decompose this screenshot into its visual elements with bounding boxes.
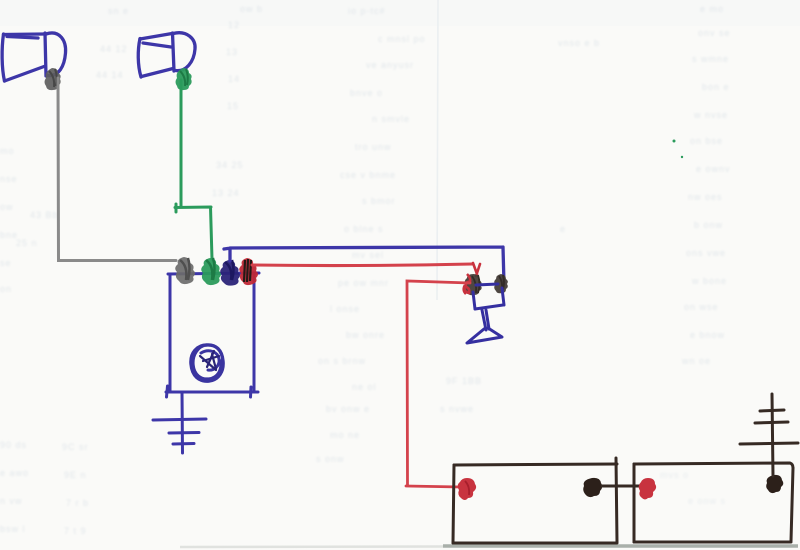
svg-text:on: on	[0, 284, 12, 294]
svg-text:ons vwe: ons vwe	[686, 248, 726, 258]
svg-text:13: 13	[226, 47, 238, 57]
battery B2 positive terminal (red)	[639, 478, 656, 500]
svg-text:se: se	[0, 258, 12, 268]
svg-text:w nvse: w nvse	[693, 110, 728, 120]
svg-text:14: 14	[228, 74, 240, 84]
svg-text:7 r b: 7 r b	[66, 498, 89, 508]
horn H1 terminal	[45, 68, 61, 90]
svg-text:w bone: w bone	[691, 276, 727, 286]
svg-text:13 24: 13 24	[212, 188, 240, 198]
relay K1 terminal 87 (green)	[201, 258, 221, 285]
svg-text:b onw: b onw	[694, 220, 723, 230]
svg-text:s wmne: s wmne	[692, 54, 729, 64]
svg-text:mv sel: mv sel	[352, 250, 384, 260]
svg-text:bv onw e: bv onw e	[326, 404, 370, 414]
wire: horn H1 to relay terminal 86 (gray)	[58, 78, 176, 261]
switch S1 terminal A	[465, 274, 482, 295]
ground (relay K1)	[153, 392, 206, 453]
horn H1	[2, 33, 65, 81]
svg-text:43 Bb: 43 Bb	[30, 210, 59, 220]
svg-text:44 14: 44 14	[96, 70, 124, 80]
svg-text:12: 12	[228, 20, 240, 30]
svg-text:44 12: 44 12	[100, 44, 128, 54]
svg-text:on wse: on wse	[684, 302, 719, 312]
wire: relay terminal 30 to switch S1 (blue)	[224, 247, 504, 284]
battery B1 positive terminal (red)	[458, 478, 476, 500]
svg-text:wn oe: wn oe	[681, 356, 711, 366]
svg-text:7 t 9: 7 t 9	[64, 526, 87, 536]
svg-text:34 25: 34 25	[216, 160, 244, 170]
relay K1 coil	[191, 345, 223, 381]
ground symbol on battery B2 negative terminal	[740, 394, 798, 476]
svg-text:bnve o: bnve o	[350, 88, 383, 98]
svg-text:on bse: on bse	[690, 136, 723, 146]
svg-text:e ownv: e ownv	[696, 164, 731, 174]
svg-text:90 ds: 90 ds	[0, 440, 27, 450]
svg-text:ve anyusr: ve anyusr	[366, 60, 414, 70]
svg-text:e mo: e mo	[700, 4, 724, 14]
battery B2 negative terminal (black)	[766, 475, 783, 493]
svg-text:cse v bnme: cse v bnme	[340, 170, 396, 180]
svg-text:s onw: s onw	[316, 454, 345, 464]
svg-text:ow: ow	[0, 202, 14, 212]
svg-text:nw oes: nw oes	[688, 192, 723, 202]
wire: battery B1 to battery B2 link	[601, 485, 645, 488]
svg-text:9F 1BB: 9F 1BB	[446, 376, 482, 386]
switch S1 horn-button body	[467, 284, 504, 343]
svg-text:e: e	[560, 224, 566, 234]
svg-text:mvs o: mvs o	[660, 470, 689, 480]
relay K1 terminal 30 (blue)	[220, 260, 240, 286]
svg-text:mo: mo	[0, 146, 15, 156]
wire: relay terminal 85 to switch S1 (red)	[252, 264, 472, 266]
svg-text:ow b: ow b	[240, 4, 263, 14]
wire: switch S1 to battery B1 + (red)	[406, 281, 470, 487]
svg-text:on s brnw: on s brnw	[318, 356, 366, 366]
svg-text:nse: nse	[0, 174, 18, 184]
svg-text:o blne s: o blne s	[344, 224, 384, 234]
svg-text:e bnow: e bnow	[690, 330, 725, 340]
svg-text:mo ne: mo ne	[330, 430, 360, 440]
svg-text:io p-tc#: io p-tc#	[348, 6, 386, 16]
switch S1 terminal B	[494, 274, 508, 293]
svg-text:bw onre: bw onre	[346, 330, 385, 340]
battery B2	[634, 463, 793, 542]
svg-text:15: 15	[227, 101, 239, 111]
relay K1 terminal 86 (gray)	[175, 257, 195, 284]
svg-text:e awo: e awo	[0, 468, 29, 478]
svg-text:ne ol: ne ol	[352, 382, 377, 392]
svg-text:n smvle: n smvle	[372, 114, 410, 124]
svg-text:25 n: 25 n	[16, 238, 38, 248]
svg-text:n vw: n vw	[0, 496, 23, 506]
svg-text:sn e: sn e	[108, 6, 129, 16]
svg-text:e onw s: e onw s	[688, 496, 726, 506]
horn H2 terminal	[176, 68, 192, 90]
svg-text:pe ow mnr: pe ow mnr	[338, 278, 389, 288]
svg-text:l onse: l onse	[330, 304, 360, 314]
svg-text:9C sr: 9C sr	[62, 442, 89, 452]
svg-text:s bmor: s bmor	[362, 196, 396, 206]
battery B1	[453, 458, 617, 543]
relay K1 terminal 85 (red)	[239, 258, 258, 285]
svg-text:vnso e b: vnso e b	[558, 38, 600, 48]
battery B1 negative terminal (black)	[583, 478, 602, 497]
svg-text:s nvwe: s nvwe	[440, 404, 474, 414]
svg-text:onv se: onv se	[698, 28, 731, 38]
svg-text:bsw l: bsw l	[0, 524, 26, 534]
svg-text:c mnsl po: c mnsl po	[378, 34, 426, 44]
relay K1 body	[166, 273, 259, 397]
horn H2	[138, 33, 195, 77]
wire: horn H2 to relay terminal 87 (green)	[175, 80, 212, 259]
svg-text:bon e: bon e	[702, 82, 730, 92]
svg-text:tro unw: tro unw	[355, 142, 392, 152]
svg-text:9E n: 9E n	[64, 470, 87, 480]
